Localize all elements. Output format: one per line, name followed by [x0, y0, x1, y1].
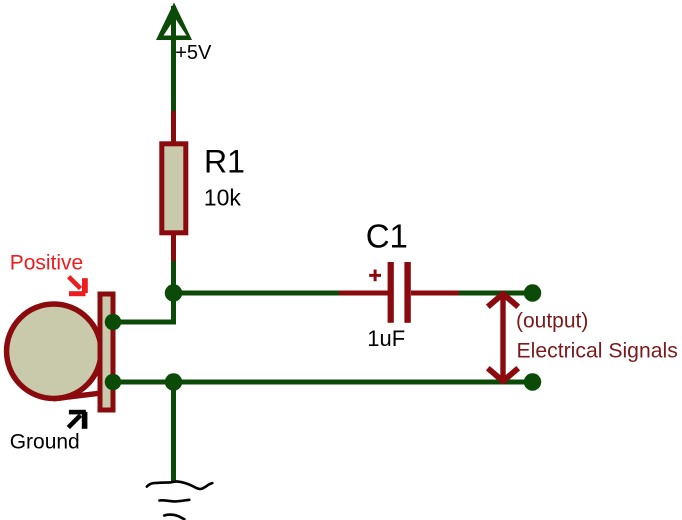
svg-text:R1: R1: [204, 144, 245, 180]
svg-text:+5V: +5V: [175, 42, 212, 64]
svg-text:1uF: 1uF: [367, 326, 405, 351]
svg-text:C1: C1: [366, 218, 408, 255]
svg-text:Ground: Ground: [10, 430, 80, 453]
svg-text:Positive: Positive: [10, 252, 84, 275]
svg-text:10k: 10k: [204, 185, 242, 211]
svg-text:Electrical Signals: Electrical Signals: [517, 340, 678, 363]
svg-text:(output): (output): [516, 309, 588, 332]
